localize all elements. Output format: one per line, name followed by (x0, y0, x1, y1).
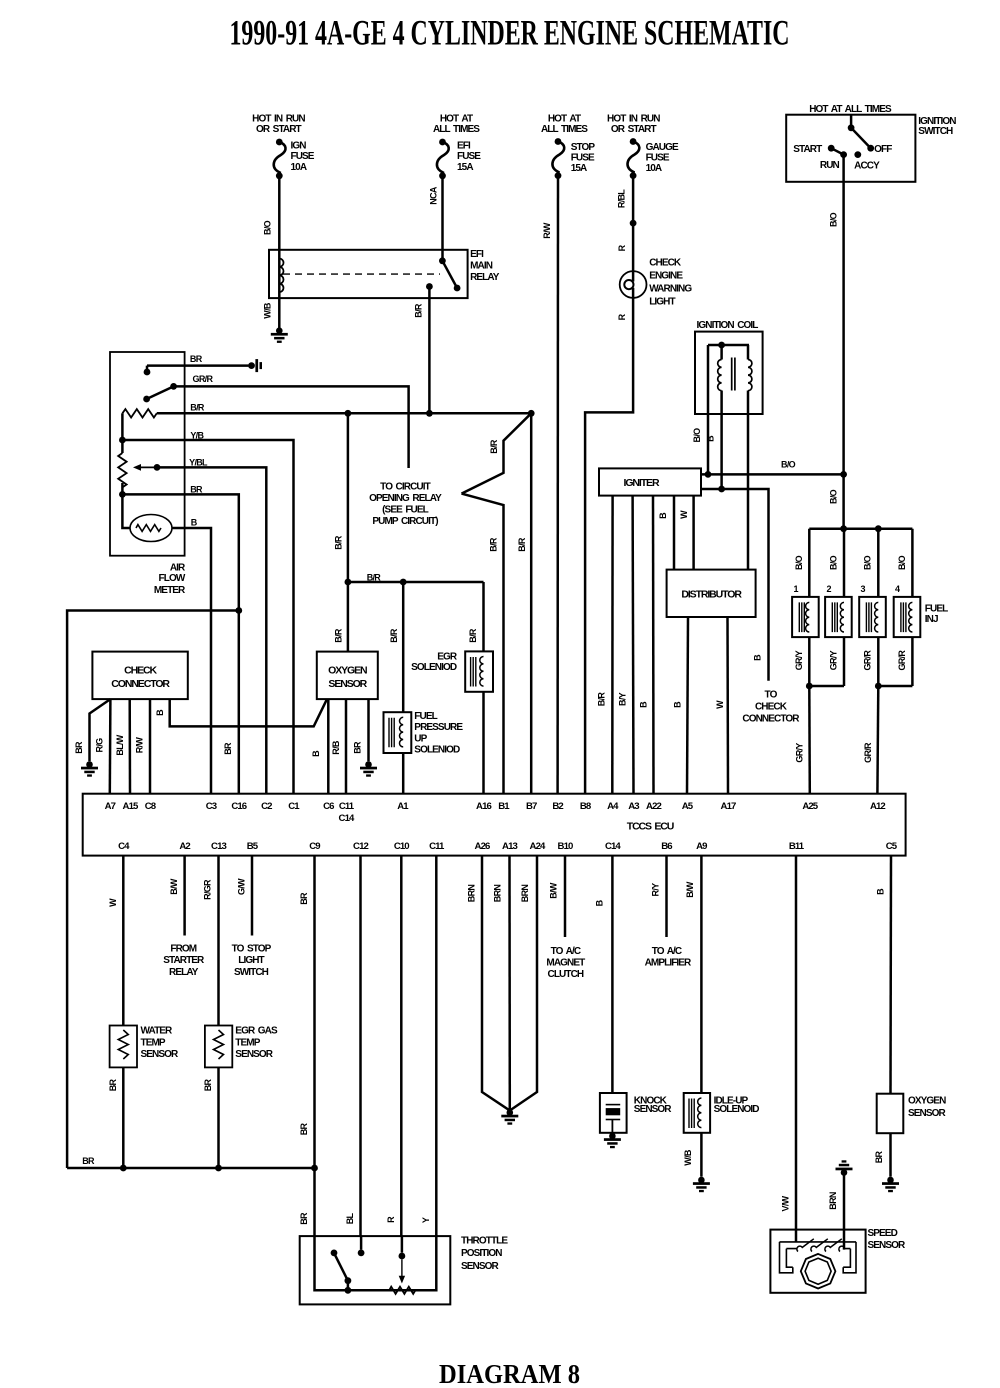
relay switch contacts (439, 257, 446, 264)
wire B/R bus to oxygen sensor (347, 582, 350, 652)
node (119, 437, 126, 444)
ignition switch START-RUN arm (828, 145, 835, 152)
node BR junction to ground rail (235, 607, 242, 614)
svg-text:CLUTCH: CLUTCH (548, 969, 584, 980)
svg-text:DISTRIBUTOR: DISTRIBUTOR (681, 589, 742, 601)
svg-text:RUN: RUN (820, 160, 840, 171)
svg-text:IGNITION COIL: IGNITION COIL (696, 320, 758, 331)
speed sensor rotor (octagon) (801, 1254, 836, 1289)
svg-text:A17: A17 (721, 801, 736, 812)
node (840, 471, 847, 478)
wire injector 1 output (808, 637, 811, 686)
svg-text:LIGHT: LIGHT (649, 296, 675, 307)
svg-text:MAGNET: MAGNET (546, 958, 585, 969)
svg-text:B/R: B/R (489, 439, 499, 454)
injector 1 core bars (799, 602, 804, 632)
ECU TCCS ECU box (83, 794, 906, 856)
svg-text:B5: B5 (247, 841, 259, 852)
svg-text:B/R: B/R (414, 303, 424, 318)
wire B check connector to oxygen sensor (170, 699, 327, 726)
svg-text:SENSOR: SENSOR (908, 1108, 947, 1119)
svg-text:GR/R: GR/R (863, 742, 873, 763)
svg-text:B/W: B/W (685, 881, 695, 898)
label SPEED SENSOR (868, 1228, 907, 1251)
ignition coil secondary winding (748, 360, 752, 391)
svg-text:A4: A4 (607, 801, 619, 812)
svg-text:B/Y: B/Y (617, 692, 627, 706)
resistor in meter (B/R) (122, 409, 156, 417)
svg-text:W/B: W/B (683, 1149, 693, 1166)
svg-text:STARTER: STARTER (163, 955, 205, 966)
solenoid IDLE-UP SOLENOID box (684, 1093, 710, 1133)
svg-text:BRN: BRN (828, 1192, 838, 1210)
meter vane damper (ellipse) (130, 515, 172, 542)
ground below knock sensor (604, 1133, 621, 1149)
svg-text:A26: A26 (475, 841, 490, 852)
svg-text:OXYGEN: OXYGEN (328, 665, 367, 677)
wire B/R sensor bus (348, 581, 484, 584)
svg-text:10A: 10A (291, 162, 307, 173)
svg-text:OFF: OFF (874, 144, 892, 155)
svg-text:R/GR: R/GR (203, 879, 213, 900)
svg-text:C11: C11 (429, 841, 445, 852)
node (806, 683, 813, 690)
svg-text:WATER: WATER (141, 1026, 174, 1037)
ignition switch ACCY contact (854, 151, 861, 158)
speed sensor yoke (780, 1242, 857, 1273)
svg-text:A25: A25 (802, 801, 818, 812)
svg-text:PRESSURE: PRESSURE (414, 722, 463, 733)
svg-text:TO A/C: TO A/C (652, 946, 682, 957)
wire BRN from ECU pin A26 to ground (482, 856, 510, 1111)
svg-text:C13: C13 (211, 841, 226, 852)
node (840, 525, 847, 532)
ground below oxygen sensor (882, 1177, 899, 1193)
svg-text:PUMP CIRCUIT): PUMP CIRCUIT) (372, 516, 438, 527)
wire R/BL then R from GAUGE fuse to warning light (632, 176, 635, 282)
svg-text:A13: A13 (502, 841, 517, 852)
svg-text:B/O: B/O (692, 428, 702, 443)
svg-text:TO: TO (765, 690, 778, 701)
solenoid EGR SOLENIOD box (465, 651, 493, 691)
svg-text:3: 3 (861, 584, 866, 594)
wire BRN from ECU pin A24 to ground (510, 856, 537, 1111)
svg-text:TEMP: TEMP (235, 1037, 260, 1048)
wire W igniter to distributor (692, 496, 695, 570)
ground below idle-up solenoid (693, 1177, 710, 1193)
sensor WATER TEMP SENSOR box (110, 1026, 137, 1068)
svg-text:STOP: STOP (571, 142, 596, 153)
sensor EGR GAS TEMP SENSOR box (205, 1026, 232, 1068)
svg-text:FUSE: FUSE (457, 151, 481, 162)
sensor KNOCK SENSOR box (600, 1093, 627, 1133)
switch IGNITION SWITCH box (786, 115, 915, 182)
svg-text:C9: C9 (309, 841, 320, 852)
label TO A/C AMPLIFIER (645, 946, 692, 969)
svg-text:V/W: V/W (780, 1195, 790, 1211)
svg-text:B/O: B/O (794, 555, 804, 570)
svg-text:SOLENOID: SOLENOID (714, 1104, 760, 1115)
idle-up solenoid winding (698, 1098, 702, 1128)
svg-text:B8: B8 (580, 801, 592, 812)
node (718, 486, 725, 493)
wire B/R bus to fuel pressure up solenoid (402, 582, 405, 712)
svg-text:BR: BR (223, 742, 233, 755)
injector 3 winding (875, 602, 879, 632)
svg-text:B/O: B/O (263, 220, 273, 235)
svg-text:B/W: B/W (549, 882, 559, 899)
wire B/R column down to sensor bus (347, 413, 350, 582)
svg-text:SENSOR: SENSOR (235, 1049, 274, 1060)
svg-text:BR: BR (299, 892, 309, 905)
svg-text:AIR: AIR (170, 562, 186, 573)
wire R/Y from ECU pin B6 (665, 856, 668, 937)
svg-text:TO STOP: TO STOP (232, 943, 272, 954)
svg-text:B/R: B/R (333, 628, 343, 643)
injector 3 core bars (866, 602, 871, 632)
label TO CHECK CONNECTOR (742, 690, 800, 725)
label HOT IN RUN OR START (GAUGE fuse) (607, 114, 660, 135)
svg-text:B/R: B/R (517, 537, 527, 552)
wire B/O to injector 4 (911, 529, 914, 597)
node (400, 579, 407, 586)
svg-text:POSITION: POSITION (461, 1248, 502, 1259)
node B/R junction at arrow (528, 410, 535, 417)
svg-text:A1: A1 (397, 801, 409, 812)
label TO STOP LIGHT SWITCH (232, 943, 272, 978)
svg-text:A15: A15 (123, 801, 139, 812)
svg-text:G/W: G/W (236, 878, 246, 895)
wire high tension lead from coil secondary to distributor (747, 345, 750, 570)
svg-text:BR: BR (353, 741, 363, 754)
svg-text:TCCS ECU: TCCS ECU (627, 820, 674, 832)
svg-text:B/R: B/R (389, 628, 399, 643)
svg-text:Y/B: Y/B (190, 430, 204, 440)
wire BR from meter switch contact to ground (147, 366, 248, 370)
label OXYGEN SENSOR (908, 1096, 947, 1119)
svg-text:C14: C14 (339, 813, 355, 824)
svg-text:BR: BR (108, 1079, 118, 1092)
meter damper resistor (136, 525, 161, 532)
svg-text:C10: C10 (394, 841, 409, 852)
sensor THROTTLE POSITION SENSOR box (300, 1236, 451, 1304)
solenoid FUEL PRESSURE UP SOLENIOD box (384, 712, 412, 753)
svg-text:UP: UP (414, 733, 427, 744)
sensor SPEED SENSOR box (770, 1230, 865, 1293)
wire BR from ECU pin C9 to throttle position sensor (313, 856, 316, 1237)
svg-text:W/B: W/B (263, 302, 273, 319)
label EGR GAS TEMP SENSOR (235, 1026, 278, 1061)
wire GR/Y to ECU pin A25 (808, 686, 811, 794)
label HOT AT ALL TIMES (STOP fuse) (541, 114, 588, 135)
svg-text:EGR: EGR (437, 651, 458, 662)
fuse STOP 15A (555, 138, 562, 145)
svg-text:BR: BR (74, 741, 84, 754)
wire W distributor to ECU pin A17 (726, 617, 729, 794)
wire B/R lower branch from arrow to ECU pin B1 (462, 494, 504, 794)
svg-text:EFI: EFI (457, 141, 471, 152)
meter internal left rail (121, 413, 124, 453)
svg-text:FUSE: FUSE (291, 151, 315, 162)
svg-text:A7: A7 (105, 801, 116, 812)
relay EFI MAIN RELAY box (269, 250, 468, 298)
svg-text:BRN: BRN (520, 885, 530, 903)
svg-text:B10: B10 (558, 841, 573, 852)
svg-text:BL: BL (345, 1213, 355, 1225)
wire B/R from relay down to B/R line (428, 287, 431, 414)
svg-text:BRN: BRN (492, 885, 502, 903)
wire BR ground bus bottom (67, 1167, 314, 1170)
label EGR SOLENIOD (411, 651, 458, 673)
svg-text:INJ: INJ (925, 614, 938, 625)
connector CHECK CONNECTOR box (92, 652, 187, 700)
svg-text:FUEL: FUEL (925, 603, 948, 614)
wire B/W from ECU pin A2 (183, 856, 186, 936)
wire BR oxygen sensor to ground (367, 699, 370, 761)
svg-text:R/Y: R/Y (650, 883, 660, 897)
svg-text:A3: A3 (628, 801, 639, 812)
speed sensor winding (797, 1239, 844, 1252)
wire B from ignition coil primary to igniter rail (720, 345, 723, 489)
svg-text:R/B: R/B (331, 740, 341, 755)
meter AIR FLOW METER box (110, 352, 185, 556)
label KNOCK SENSOR (634, 1096, 673, 1116)
coil IGNITION COIL box (695, 332, 763, 414)
TPS BL contact (360, 1236, 363, 1249)
svg-text:CONNECTOR: CONNECTOR (111, 678, 170, 690)
lamp CHECK ENGINE WARNING LIGHT (620, 271, 647, 298)
svg-text:B/O: B/O (897, 555, 907, 570)
svg-text:BR: BR (203, 1079, 213, 1092)
svg-text:CONNECTOR: CONNECTOR (742, 714, 800, 725)
injector 2 core bars (832, 602, 837, 632)
node (705, 471, 712, 478)
svg-text:C5: C5 (886, 841, 898, 852)
wire fuel pressure solenoid to ECU pin A1 (402, 753, 405, 794)
potentiometer resistor in meter (118, 453, 126, 487)
svg-text:4: 4 (895, 584, 900, 594)
ignition switch blade to OFF (851, 128, 871, 148)
meter internal rail below potentiometer (122, 483, 130, 528)
wire R/B oxygen sensor to ECU pin C11 C14 (345, 699, 348, 794)
svg-text:FUEL: FUEL (414, 711, 437, 722)
relay dashed link (283, 273, 440, 275)
wire R/GR from ECU pin C13 to EGR gas temp sensor (217, 856, 220, 1026)
svg-text:Y: Y (421, 1217, 431, 1223)
EGR gas temp sensor element (214, 1030, 224, 1059)
svg-text:A9: A9 (696, 841, 707, 852)
svg-text:B/R: B/R (468, 628, 478, 643)
label FUEL INJ (925, 603, 948, 625)
wire B/R from meter resistor across to junction column (157, 412, 531, 415)
svg-text:R/W: R/W (542, 222, 552, 239)
ground (sideways) for meter BR (248, 359, 262, 372)
label FROM STARTER RELAY (163, 943, 205, 978)
wire R/W from STOP fuse down to ECU pin B2 (556, 176, 559, 794)
EGR solenoid core bars (471, 657, 476, 687)
svg-text:WARNING: WARNING (649, 283, 692, 294)
wire B rail from igniter to check connector drop (701, 489, 769, 681)
svg-text:OR START: OR START (611, 124, 657, 135)
svg-text:A22: A22 (646, 801, 661, 812)
injector 1 box (792, 597, 819, 637)
wire GR/R from meter to circuit opening relay pointer (174, 386, 409, 468)
svg-text:EGR GAS: EGR GAS (235, 1026, 278, 1037)
svg-text:SENSOR: SENSOR (328, 678, 367, 690)
svg-text:15A: 15A (457, 162, 473, 173)
label WATER TEMP SENSOR (141, 1026, 180, 1061)
wire V/W from ECU pin B11 to speed sensor (795, 856, 798, 1242)
svg-text:B1: B1 (498, 801, 510, 812)
svg-text:BR: BR (874, 1151, 884, 1164)
idle-up solenoid core bars (689, 1099, 694, 1129)
node (875, 525, 882, 532)
injector 2 winding (840, 602, 844, 632)
wire B from meter to ECU pin C3 (172, 528, 211, 794)
svg-text:OXYGEN: OXYGEN (908, 1096, 946, 1107)
svg-text:A12: A12 (870, 801, 885, 812)
label HOT IN RUN OR START (IGN fuse) (252, 114, 305, 135)
svg-text:C1: C1 (288, 801, 300, 812)
label IDLE-UP SOLENOID (714, 1096, 760, 1116)
node B/R junction at bus column (345, 410, 352, 417)
injector 4 core bars (901, 602, 906, 632)
node switch contact (144, 369, 151, 376)
svg-text:METER: METER (154, 585, 186, 596)
wire injector 3 output (877, 637, 880, 686)
svg-text:TO CIRCUIT: TO CIRCUIT (380, 482, 430, 493)
svg-text:FLOW: FLOW (159, 573, 186, 584)
svg-text:B/R: B/R (367, 573, 382, 583)
svg-text:ALL TIMES: ALL TIMES (433, 124, 480, 135)
TPS idle switch contact (331, 1250, 338, 1257)
wire BL/W check connector to ECU pin A15 (128, 699, 131, 794)
relay coil winding (279, 259, 283, 293)
svg-text:GAUGE: GAUGE (646, 142, 679, 153)
svg-text:GR/R: GR/R (897, 650, 907, 671)
wire Y from ECU pin C11 to throttle position sensor (435, 856, 438, 1237)
wire BRN from ground to speed sensor (843, 1174, 846, 1250)
svg-text:W: W (715, 700, 725, 709)
fuel pressure solenoid winding (400, 717, 404, 747)
TPS R wiper (401, 1236, 404, 1253)
svg-text:SENSOR: SENSOR (634, 1104, 673, 1115)
svg-text:FROM: FROM (170, 943, 196, 954)
water temp sensor element (118, 1030, 128, 1059)
svg-text:B6: B6 (661, 841, 672, 852)
wire B/R igniter to ECU pin A4 (611, 496, 614, 794)
wire B/O to injector 1 (808, 529, 811, 597)
ignition switch feed stub (850, 115, 853, 128)
wire BR water temp sensor to ground bus (122, 1067, 125, 1168)
svg-text:A5: A5 (682, 801, 694, 812)
node (875, 683, 882, 690)
node (120, 1165, 127, 1172)
svg-text:IGN: IGN (291, 141, 307, 152)
wire pair bus injectors 3-4 (878, 685, 912, 688)
node (215, 1165, 222, 1172)
svg-text:1990-91 4A-GE 4 CYLINDER ENGIN: 1990-91 4A-GE 4 CYLINDER ENGINE SCHEMATI… (230, 13, 790, 53)
svg-text:10A: 10A (646, 163, 662, 174)
wire B igniter to ECU pin A22 (652, 496, 655, 794)
svg-text:2: 2 (826, 584, 831, 594)
wire BR EGR gas temp sensor to ground bus (217, 1067, 220, 1168)
label FUEL PRESSURE UP SOLENIOD (414, 711, 463, 756)
svg-text:R/G: R/G (95, 738, 105, 753)
node on gauge wire (630, 220, 637, 227)
svg-text:B/O: B/O (829, 555, 839, 570)
svg-text:A24: A24 (530, 841, 546, 852)
wire B/R bus to EGR solenoid (482, 582, 485, 651)
node (345, 579, 352, 586)
svg-text:OPENING RELAY: OPENING RELAY (369, 493, 442, 504)
label TO A/C MAGNET CLUTCH (546, 946, 585, 980)
wire NCA from EFI fuse to relay switch (441, 176, 444, 261)
svg-text:C3: C3 (206, 801, 217, 812)
svg-text:TEMP: TEMP (141, 1037, 166, 1048)
injector 1 winding (806, 602, 810, 632)
svg-text:RELAY: RELAY (169, 967, 199, 978)
wire pair bus injectors 1-2 (809, 685, 844, 688)
svg-text:W: W (679, 510, 689, 519)
wire B igniter to distributor (673, 496, 676, 570)
wire BR check connector to ground (90, 699, 111, 761)
svg-text:C16: C16 (231, 801, 246, 812)
wire B/O rail from igniter to ignition switch feed (701, 473, 844, 476)
svg-text:BR: BR (299, 1212, 309, 1225)
svg-text:C14: C14 (605, 841, 621, 852)
svg-text:CHECK: CHECK (649, 258, 682, 269)
wire GR/R to ECU pin A12 (876, 686, 879, 794)
svg-text:A16: A16 (476, 801, 491, 812)
ignition coil primary winding (718, 360, 722, 391)
svg-text:NCA: NCA (428, 186, 438, 205)
svg-text:START: START (793, 144, 822, 155)
wire EGR solenoid to ECU pin A16 (482, 692, 485, 794)
svg-text:SENSOR: SENSOR (868, 1240, 907, 1251)
svg-text:RELAY: RELAY (470, 272, 500, 283)
svg-text:B/O: B/O (781, 460, 796, 470)
svg-text:FUSE: FUSE (571, 152, 595, 163)
svg-text:W: W (108, 898, 118, 907)
svg-text:B/R: B/R (488, 537, 498, 552)
wire BL from ECU pin C12 to throttle position sensor (359, 856, 362, 1237)
label HOT AT ALL TIMES (EFI fuse) (433, 114, 480, 135)
svg-text:CHECK: CHECK (124, 665, 157, 677)
potentiometer wiper arrow (137, 466, 157, 468)
wire B/Y igniter to ECU pin A3 (631, 496, 634, 794)
wire Y/BL from wiper to ECU pin C2 (157, 467, 266, 793)
node (311, 1165, 318, 1172)
module DISTRIBUTOR box (667, 570, 756, 617)
wire BR oxygen sensor to ground (889, 1133, 892, 1177)
svg-text:B/W: B/W (169, 878, 179, 895)
ground below check connector (81, 761, 98, 777)
svg-text:Y/BL: Y/BL (189, 457, 208, 467)
svg-text:C8: C8 (145, 801, 157, 812)
node (154, 464, 161, 471)
node (718, 342, 725, 349)
svg-text:C4: C4 (118, 841, 130, 852)
wire B distributor to ECU pin A5 (687, 617, 688, 794)
svg-text:BRN: BRN (467, 885, 477, 903)
wire B from ECU pin C14 to knock sensor (611, 856, 614, 1093)
svg-text:B11: B11 (789, 841, 805, 852)
svg-text:B7: B7 (526, 801, 537, 812)
svg-text:B/O: B/O (829, 212, 839, 227)
svg-text:BR: BR (299, 1123, 309, 1136)
svg-text:BL/W: BL/W (115, 734, 125, 755)
